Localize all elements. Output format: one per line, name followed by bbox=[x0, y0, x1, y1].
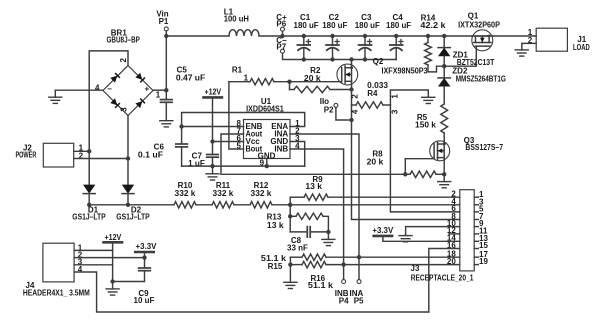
wire R15 ground branch bbox=[289, 257, 291, 281]
resistor R4 0.033 bbox=[352, 104, 357, 106]
svg-text:332 k: 332 k bbox=[175, 189, 196, 198]
svg-text:R4: R4 bbox=[367, 89, 378, 98]
capacitor C7 1 uF bbox=[212, 142, 214, 155]
connector J4 HEADER4X1 box bbox=[43, 243, 74, 282]
wire R4 right to ground jog bbox=[390, 90, 428, 105]
wire R11-R12 bbox=[234, 204, 250, 206]
wire R12 to J3 pin4 bbox=[272, 204, 460, 206]
svg-text:3: 3 bbox=[120, 107, 129, 112]
wire BR1 pin3 to D2 bbox=[127, 116, 129, 159]
svg-text:180 uF: 180 uF bbox=[294, 21, 319, 30]
ground at C8 bbox=[327, 232, 329, 239]
svg-text:P6: P6 bbox=[276, 20, 286, 29]
wire R10-R11 bbox=[196, 204, 212, 206]
svg-text:4: 4 bbox=[95, 84, 100, 93]
wire J4 pin2 to +3.3V node bbox=[74, 257, 144, 259]
ground at Q3 source bbox=[438, 181, 451, 183]
svg-text:BSS127S–7: BSS127S–7 bbox=[465, 143, 503, 152]
resistor R1 bbox=[229, 81, 250, 83]
terminal P2 (IIo) bbox=[334, 103, 338, 107]
wire BR1 pin2 loop to J2 pin1 / D1 bbox=[89, 51, 128, 151]
transistor Q3 BSS127S-7 bbox=[430, 141, 450, 161]
ground at C7 bbox=[212, 167, 214, 174]
wire J4 pin3 to ground bbox=[74, 265, 113, 282]
svg-text:10 uF: 10 uF bbox=[134, 296, 155, 305]
svg-text:42.2 k: 42.2 k bbox=[420, 21, 446, 30]
wire J3 pin16 to bottom rail bbox=[429, 249, 460, 313]
svg-text:R15: R15 bbox=[268, 262, 283, 271]
wire INB from U1 pin4 bbox=[290, 149, 344, 280]
connector J1 LOAD bbox=[536, 28, 567, 51]
junction Aout / gate node bbox=[403, 172, 407, 176]
diode D1 GS1J-LTP bbox=[88, 151, 90, 184]
svg-text:+12V: +12V bbox=[204, 87, 221, 96]
IC U1 IXDD604S1 box bbox=[244, 120, 291, 159]
svg-text:IXTX32P60P: IXTX32P60P bbox=[458, 21, 500, 30]
wire P7 to cap bottom rail bbox=[283, 53, 397, 59]
svg-text:20 k: 20 k bbox=[367, 157, 384, 166]
junction R1/R2/Q2-gate bbox=[287, 80, 291, 84]
wire P2 to source node bbox=[336, 108, 352, 121]
wire J2 pin1 bbox=[74, 150, 90, 152]
connector J3 RECEPTACLE_20_1 box bbox=[460, 190, 474, 271]
junction Q2 source / P2 bbox=[349, 118, 353, 122]
wire J2 pin2 to D2 bbox=[74, 158, 128, 160]
wire node A vertical bbox=[289, 197, 291, 232]
wire top rail L1 to Q1 bbox=[259, 35, 472, 37]
resistor R2 20 k bbox=[289, 82, 291, 90]
wire J1 pin2 to ground bbox=[522, 43, 536, 50]
wire ENB pin8 bbox=[182, 126, 244, 128]
zener diode ZD1 BZT52C13T bbox=[442, 34, 446, 38]
svg-text:−: − bbox=[107, 84, 112, 93]
junction ZD1/ZD2/R14/Q1-gate node bbox=[442, 64, 446, 68]
svg-text:15: 15 bbox=[479, 241, 488, 250]
junction ground node J4 bbox=[110, 279, 114, 283]
connector J2 POWER bbox=[43, 143, 73, 167]
svg-text:P4: P4 bbox=[339, 297, 349, 306]
terminal P7 (C-) bbox=[281, 49, 285, 53]
ground at J4 bbox=[112, 282, 114, 289]
resistor R15 51.1 k bbox=[290, 256, 302, 258]
junction R13 tap bbox=[288, 214, 292, 218]
resistor R14 42.2 k bbox=[426, 34, 430, 38]
capacitor C2 180 uF bbox=[332, 36, 334, 45]
wire Q3 source bbox=[443, 161, 445, 182]
junction node A divider tap bbox=[288, 203, 292, 207]
wire top rail P1 to L1 bbox=[166, 35, 229, 37]
resistor R10 332 k bbox=[174, 202, 196, 208]
wire Bout pin5 to R1 bbox=[229, 82, 244, 149]
svg-text:POWER: POWER bbox=[15, 151, 36, 160]
power +3.3V at J4 bbox=[135, 251, 153, 254]
svg-text:1: 1 bbox=[244, 74, 249, 83]
svg-text:180 uF: 180 uF bbox=[355, 21, 380, 30]
ground at C5 bbox=[160, 120, 173, 122]
svg-text:0.1 uF: 0.1 uF bbox=[138, 151, 163, 160]
inductor L1 bbox=[229, 30, 259, 36]
ground at BR1 AC input bbox=[54, 90, 56, 97]
junction INB / J3 pin20 bbox=[341, 262, 345, 266]
svg-text:2: 2 bbox=[119, 58, 128, 63]
junction Vin node bbox=[164, 34, 168, 38]
capacitor C5 0.47 uF bbox=[165, 90, 167, 99]
resistor R13 13 k bbox=[290, 215, 296, 217]
svg-text:1: 1 bbox=[391, 94, 400, 99]
wire R4 right to J3 pin6 bbox=[390, 105, 459, 212]
svg-text:Q2: Q2 bbox=[373, 57, 384, 66]
wire divider rail bbox=[89, 204, 174, 206]
wire Q3 gate bbox=[405, 158, 433, 160]
wire ground to BR1 pin4 bbox=[55, 89, 103, 91]
junction bridge output / C5 bbox=[164, 88, 168, 92]
wire Aout pin7 bbox=[221, 134, 405, 174]
wire pin3 GND loop bbox=[290, 142, 305, 167]
resistor R5 150 k bbox=[441, 104, 448, 133]
svg-text:100 uH: 100 uH bbox=[224, 15, 249, 24]
svg-text:GS1J–LTP: GS1J–LTP bbox=[72, 213, 106, 222]
bridge rectifier BR1 GBU8J-BP bbox=[103, 66, 153, 116]
svg-text:3: 3 bbox=[391, 109, 400, 114]
svg-text:J3: J3 bbox=[411, 264, 420, 273]
junction INA / J3 pin18 bbox=[357, 255, 361, 259]
terminal P4 (INB) bbox=[342, 280, 346, 284]
svg-text:IXFX98N50P3: IXFX98N50P3 bbox=[382, 67, 428, 76]
svg-text:0.47 uF: 0.47 uF bbox=[176, 73, 205, 82]
svg-text:13 k: 13 k bbox=[305, 182, 322, 191]
svg-text:P5: P5 bbox=[354, 297, 364, 306]
wire J3 pin10 to ground bbox=[406, 227, 460, 236]
svg-text:GBU8J–BP: GBU8J–BP bbox=[107, 35, 141, 44]
wire Q2 drain to cap rail bbox=[351, 60, 353, 65]
resistor R9 13 k bbox=[290, 196, 304, 198]
capacitor C1 180 uF bbox=[303, 36, 305, 45]
transistor Q1 IXTX32P60P bbox=[472, 30, 493, 51]
capacitor C9 10 uF bbox=[144, 258, 146, 268]
wire Vin vertical bbox=[165, 36, 167, 90]
wire J4 pin4 to J3 pin16 (bottom rail) bbox=[74, 272, 429, 312]
svg-text:+12V: +12V bbox=[105, 233, 122, 242]
svg-text:+: + bbox=[144, 84, 149, 93]
power +12V (C5 area) bbox=[204, 96, 222, 99]
diode D2 GS1J-LTP bbox=[127, 159, 129, 185]
capacitor C6 0.1 uF bbox=[181, 127, 183, 144]
wire gate drive to Q2 bbox=[290, 81, 341, 83]
svg-text:51.1 k: 51.1 k bbox=[308, 281, 334, 290]
svg-text:R1: R1 bbox=[232, 66, 243, 75]
wire Q1 gate to zener node bbox=[444, 46, 476, 66]
svg-text:P1: P1 bbox=[159, 17, 169, 26]
terminal P1 (Vin) bbox=[164, 27, 168, 31]
wire EN loop (ENB to ENA) bbox=[182, 113, 305, 127]
wire pin9 stub bbox=[266, 159, 268, 167]
wire Q3 gate node vertical bbox=[404, 159, 406, 175]
terminal P6 (C+) bbox=[281, 27, 285, 31]
resistor R11 332 k bbox=[212, 202, 234, 208]
svg-text:33 nF: 33 nF bbox=[287, 243, 308, 252]
power +3.3V at J3 pin14 bbox=[374, 235, 392, 238]
wire INA from U1 pin2 bbox=[290, 134, 359, 280]
svg-text:332 k: 332 k bbox=[251, 189, 272, 198]
svg-text:GS1J–LTP: GS1J–LTP bbox=[116, 213, 150, 222]
svg-text:HEADER4X1_ 3.5MM: HEADER4X1_ 3.5MM bbox=[23, 288, 90, 297]
resistor R8 20 k bbox=[405, 173, 410, 175]
transistor Q2 IXFX98N50P3 bbox=[337, 64, 358, 85]
junction R2 at Q2 source bbox=[349, 87, 353, 91]
svg-text:19: 19 bbox=[479, 257, 488, 266]
svg-text:150 k: 150 k bbox=[415, 121, 436, 130]
svg-text:Q1: Q1 bbox=[468, 12, 479, 21]
svg-text:180 uF: 180 uF bbox=[386, 21, 411, 30]
ground at J3 pin10 bbox=[399, 235, 412, 237]
junction P6 node bbox=[280, 34, 284, 38]
wire U1 ground line bbox=[182, 165, 305, 167]
svg-text:332 k: 332 k bbox=[213, 189, 234, 198]
svg-text:P7: P7 bbox=[276, 43, 286, 52]
svg-text:LOAD: LOAD bbox=[573, 43, 590, 52]
svg-text:20 k: 20 k bbox=[304, 74, 321, 83]
wire BR1 pin1 to Vin node bbox=[153, 89, 166, 91]
svg-text:2: 2 bbox=[351, 94, 360, 99]
wire J4 pin1 to +12V bbox=[74, 249, 113, 251]
junction R8 at Q3 source bbox=[442, 172, 446, 176]
svg-text:13 k: 13 k bbox=[267, 221, 284, 230]
junction Q2 drain on cap rail bbox=[349, 57, 353, 61]
svg-text:INB: INB bbox=[274, 145, 288, 154]
ground at R4 sense bbox=[422, 96, 435, 98]
capacitor C3 180 uF bbox=[364, 36, 366, 45]
svg-text:P2: P2 bbox=[324, 105, 334, 114]
capacitor C4 180 uF bbox=[395, 36, 397, 45]
svg-text:4: 4 bbox=[351, 109, 360, 114]
capacitor C8 33 nF bbox=[290, 231, 307, 233]
wire J3 pin12 stub bbox=[449, 233, 460, 235]
resistor R12 332 k bbox=[250, 202, 272, 208]
wire Q1 drain to J1 bbox=[493, 35, 536, 37]
zener diode ZD2 MMSZ5264BT1G bbox=[443, 66, 445, 78]
junction C8/R13 ground node bbox=[326, 230, 330, 234]
svg-text:1: 1 bbox=[156, 90, 161, 99]
wire +12V stem to Vcc bbox=[212, 97, 214, 141]
junction R16 left bbox=[288, 262, 292, 266]
svg-text:+3.3V: +3.3V bbox=[136, 242, 158, 251]
wire Vcc pin6 bbox=[213, 141, 244, 143]
junction +3.3V / C9 bbox=[142, 255, 146, 259]
wire +12V stem overlap bbox=[112, 250, 114, 264]
svg-text:RECEPTACLE_20_1: RECEPTACLE_20_1 bbox=[411, 274, 474, 283]
svg-text:+3.3V: +3.3V bbox=[372, 226, 394, 235]
wire Q2 source down bbox=[351, 85, 353, 120]
wire Q2 source to J3 pin8 bbox=[352, 120, 460, 220]
junction C7 ground bbox=[210, 164, 214, 168]
terminal P5 (INA) bbox=[357, 280, 361, 284]
svg-text:MMSZ5264BT1G: MMSZ5264BT1G bbox=[456, 74, 506, 83]
svg-text:180 uF: 180 uF bbox=[322, 21, 347, 30]
ground at R15/R16 bbox=[284, 281, 297, 283]
power +12V at J4 bbox=[104, 241, 122, 244]
ground at J1 bbox=[515, 49, 528, 51]
resistor R16 51.1 k bbox=[290, 264, 302, 266]
